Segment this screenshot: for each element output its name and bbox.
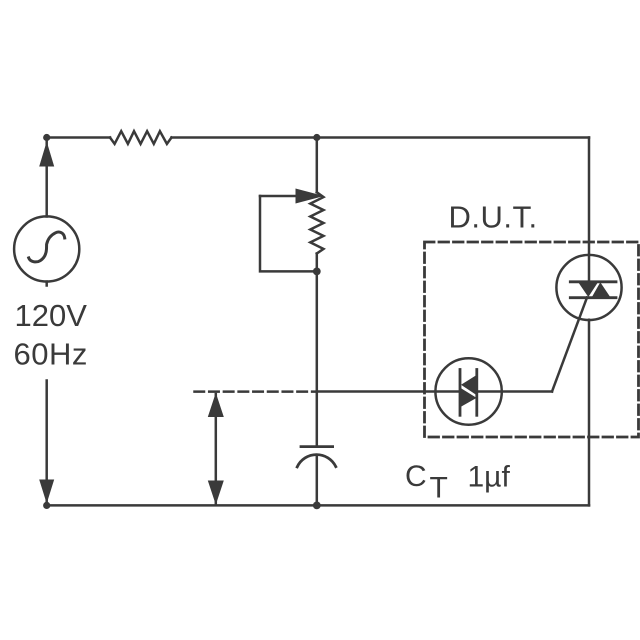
arrow down (source bottom) [39, 480, 54, 504]
TRIAC U1 circle [556, 255, 621, 320]
wire right vertical below TRIAC [588, 320, 591, 506]
capacitor CT curved plate [297, 455, 336, 467]
wire DIAC right to gate bend [478, 390, 553, 393]
DIAC lower triangle (points right) [460, 388, 477, 408]
junction dot top-left [43, 134, 50, 141]
svg-text:D.U.T.: D.U.T. [449, 200, 538, 235]
dashed measurement line [195, 390, 317, 393]
DIAC right bar [475, 370, 478, 416]
TRIAC top bar [570, 280, 616, 283]
measurement arrow shaft [215, 394, 218, 504]
svg-text:60Hz: 60Hz [14, 336, 88, 371]
DIAC upper triangle (points left) [461, 375, 477, 395]
measurement arrow head up [208, 393, 224, 417]
AC source sine symbol [29, 232, 65, 262]
junction dot potentiometer bottom [313, 268, 321, 276]
DIAC U2 circle [435, 358, 501, 424]
wire left vertical lower (source to bottom wire) [45, 282, 48, 506]
svg-text:C: C [405, 460, 427, 493]
TRIAC right triangle (points up) [592, 282, 611, 297]
wire center vertical (potentiometer to capacitor) [316, 254, 319, 446]
resistor R1 (series resistor, top) [110, 131, 172, 144]
TRIAC bottom bar [570, 296, 616, 299]
junction dot bottom-left [43, 502, 50, 509]
wire right vertical (top wire corner down to TRIAC top bar) [588, 138, 591, 282]
TRIAC left triangle (points down) [578, 282, 598, 297]
measurement arrow head down [208, 481, 224, 505]
wire capacitor to bottom wire [316, 455, 319, 505]
svg-text:120V: 120V [15, 298, 88, 333]
junction dot bottom-center [313, 502, 321, 510]
wire bottom horizontal [47, 504, 589, 507]
D.U.T. dashed box [425, 242, 639, 437]
wire top horizontal [47, 136, 589, 139]
wire left vertical upper (source to top wire) [45, 138, 48, 217]
DIAC left bar [459, 370, 462, 416]
capacitor CT top plate [301, 445, 333, 448]
junction dot top-center [313, 134, 320, 141]
wire center vertical (top wire down to potentiometer) [316, 138, 319, 193]
potentiometer wiper tail wire [260, 195, 297, 198]
wire from center to DIAC [317, 390, 460, 393]
potentiometer R2 zigzag [310, 192, 323, 253]
potentiometer loop wire (left and bottom) [260, 196, 317, 271]
gate wire diagonal to TRIAC [552, 298, 587, 392]
svg-text:1µf: 1µf [468, 461, 511, 494]
potentiometer wiper arrow [296, 189, 325, 204]
AC source V1 circle [14, 216, 79, 281]
arrow up (source top) [39, 142, 54, 167]
svg-text:T: T [430, 472, 448, 505]
